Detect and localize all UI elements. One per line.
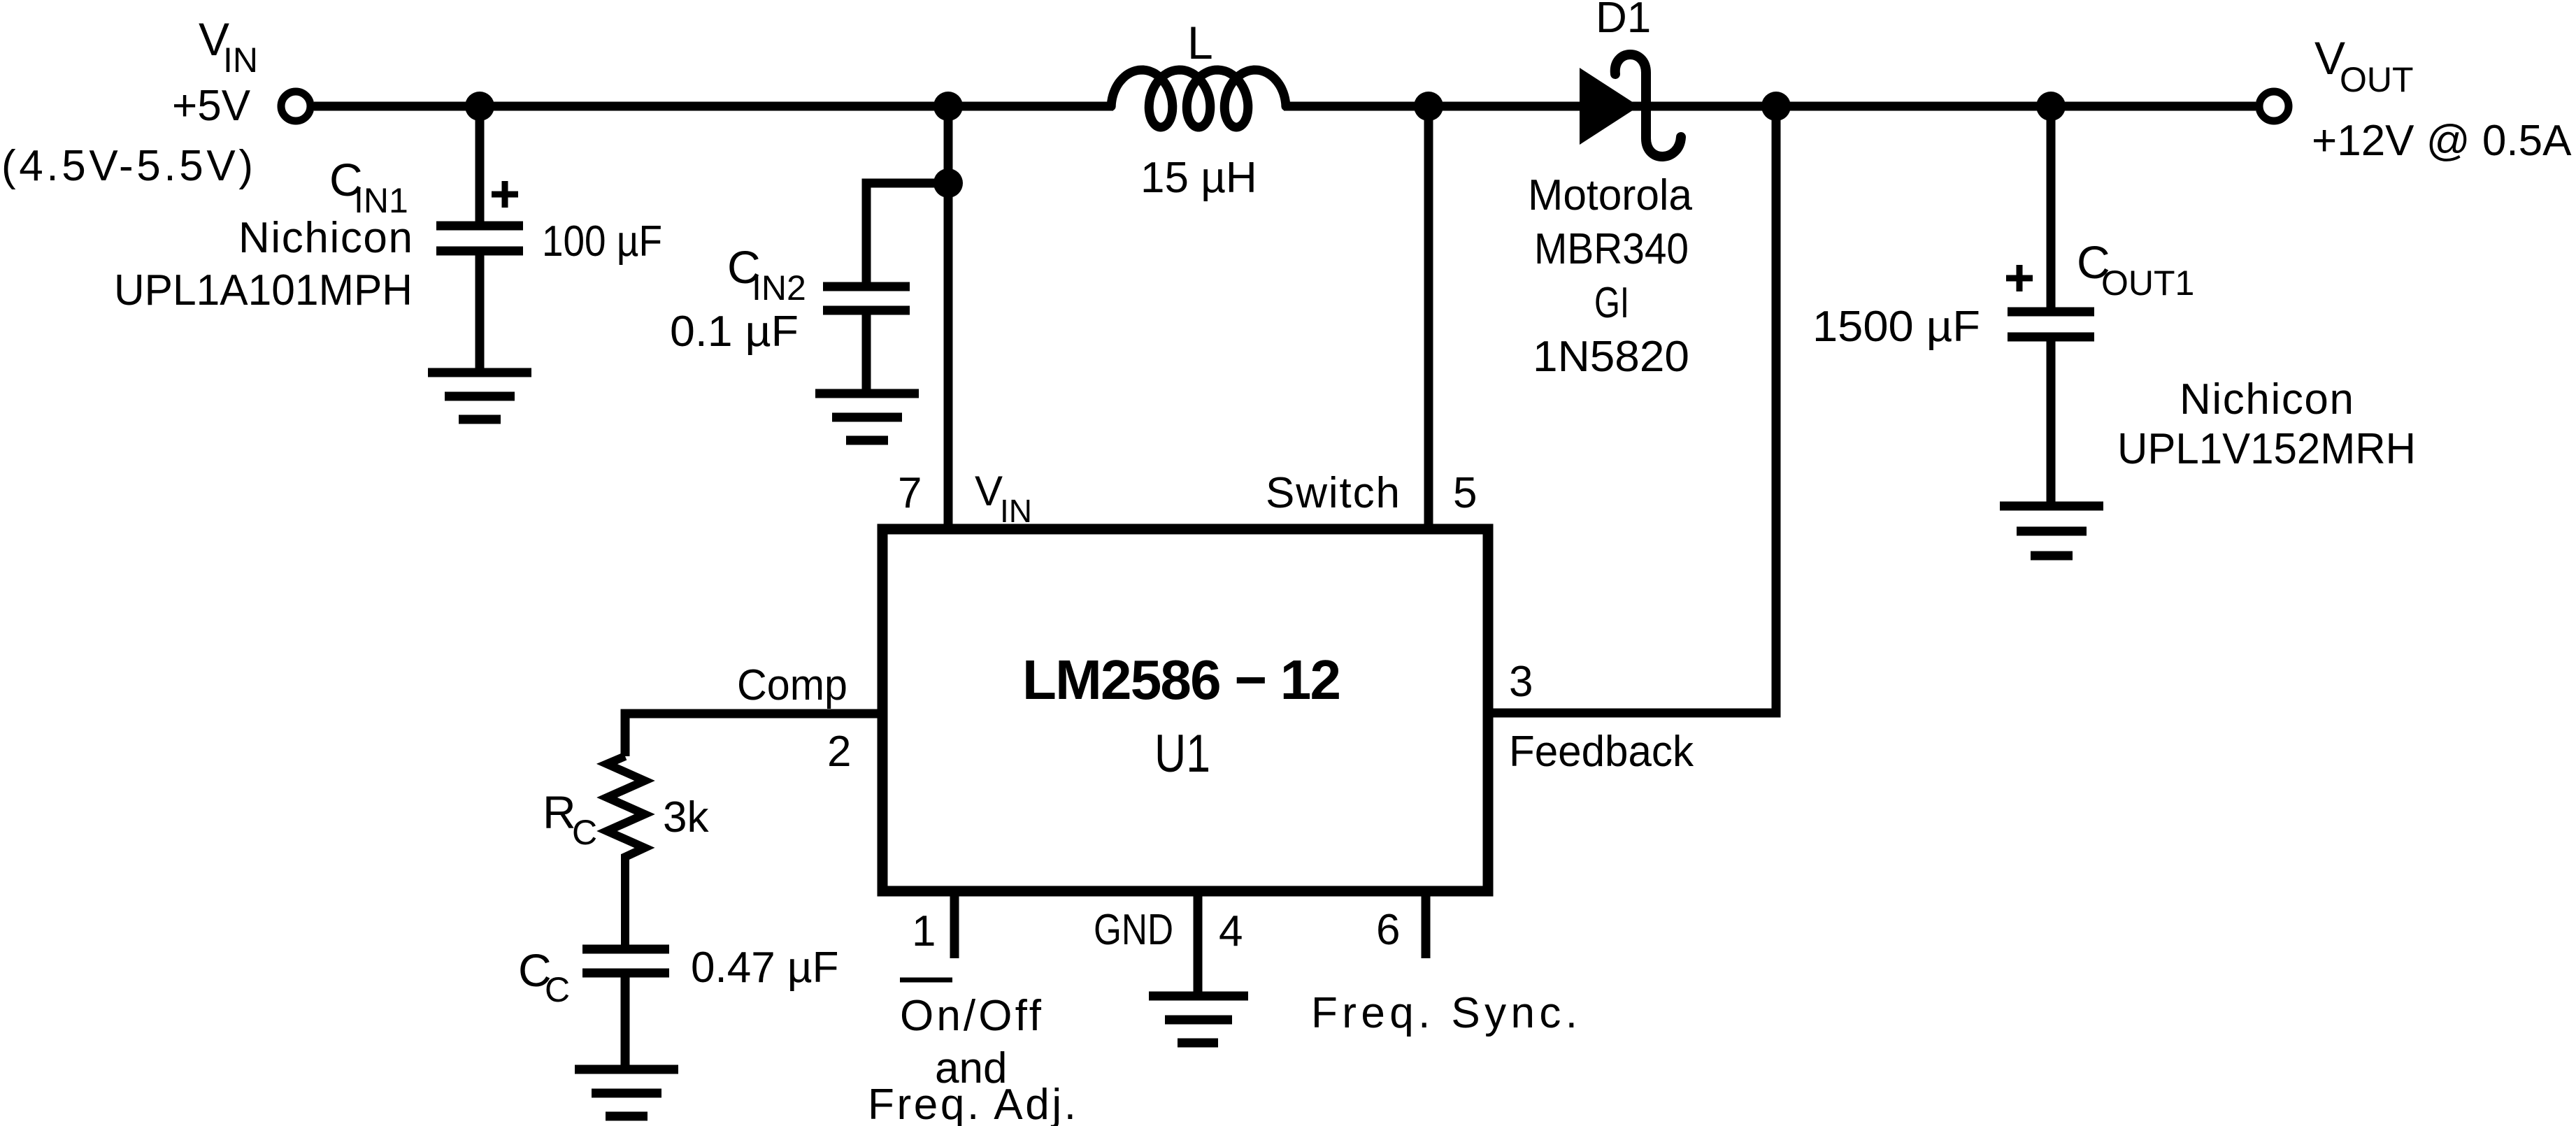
ground (CIN1) [428, 373, 531, 419]
svg-text:GI: GI [1594, 279, 1629, 327]
svg-text:OUT1: OUT1 [2101, 264, 2194, 303]
svg-text:D1: D1 [1596, 0, 1651, 42]
svg-text:3: 3 [1509, 658, 1533, 706]
svg-text:0.1 µF: 0.1 µF [670, 308, 799, 356]
svg-text:OUT: OUT [2340, 60, 2414, 99]
svg-text:Motorola: Motorola [1528, 171, 1693, 219]
label CIN1 plus [492, 181, 518, 208]
label VIN [1, 13, 258, 190]
pin 4 / GND labels [1094, 906, 1243, 955]
ground (GND pin 4) [1149, 996, 1248, 1043]
node D: switch node junction [1414, 92, 1443, 121]
ground (COUT1) [2000, 506, 2103, 556]
svg-text:1N5820: 1N5820 [1533, 333, 1689, 381]
terminal VIN (input, open circle) [281, 92, 310, 121]
svg-text:Nichicon: Nichicon [2180, 375, 2354, 424]
svg-text:Nichicon: Nichicon [238, 214, 413, 262]
svg-text:UPL1V152MRH: UPL1V152MRH [2117, 425, 2416, 473]
wire comp (pin 2) [625, 714, 882, 756]
diode D1 [1580, 55, 1681, 157]
capacitor CIN1 [436, 226, 523, 368]
node F: COUT1 junction on rail [2036, 92, 2066, 121]
label COUT1 plus [2006, 265, 2033, 291]
capacitor CC [582, 949, 669, 1065]
svg-text:R: R [543, 786, 576, 838]
wire feedback [1491, 106, 1776, 713]
label CC [518, 944, 839, 1009]
capacitor COUT1 [2008, 312, 2094, 502]
IC U1 (LM2586-12 body) [882, 529, 1488, 891]
ground (CIN2) [815, 394, 919, 440]
node B: VIN pin-7 junction on rail [933, 92, 963, 121]
svg-text:7: 7 [898, 469, 922, 517]
pin 1 stub [950, 891, 959, 958]
label On/Off and Freq. Adj. [868, 992, 1076, 1126]
svg-text:6: 6 [1376, 906, 1400, 954]
svg-text:1500 µF: 1500 µF [1812, 303, 1980, 351]
svg-text:GND: GND [1094, 906, 1173, 954]
wire main rail [314, 102, 1113, 111]
capacitor CIN2 [823, 287, 910, 389]
label D1 part [1528, 171, 1693, 381]
resistor RC [607, 756, 645, 945]
pin 7 label [898, 468, 1032, 529]
svg-text:15 µH: 15 µH [1140, 154, 1257, 202]
node A: input/CIN1 junction [465, 92, 494, 121]
svg-text:1: 1 [912, 907, 936, 955]
svg-text:Feedback: Feedback [1509, 728, 1694, 776]
label CIN1 [114, 154, 662, 315]
svg-text:IN: IN [223, 41, 258, 80]
label COUT1 [1812, 236, 2416, 473]
svg-text:On/Off: On/Off [900, 992, 1042, 1040]
svg-text:Switch: Switch [1266, 469, 1400, 517]
svg-text:C: C [545, 970, 570, 1009]
wire COUT1 top lead [2047, 106, 2056, 308]
label On/Off overline [900, 978, 952, 983]
node E: feedback junction on rail [1761, 92, 1791, 121]
svg-text:L: L [1187, 17, 1213, 68]
node C: CIN2 tap junction [933, 168, 963, 198]
svg-text:100 µF: 100 µF [542, 217, 662, 266]
svg-text:4: 4 [1219, 907, 1243, 955]
svg-text:U1: U1 [1154, 724, 1210, 784]
label CIN2 [670, 241, 806, 356]
svg-text:V: V [975, 468, 1003, 514]
svg-text:MBR340: MBR340 [1534, 225, 1689, 273]
svg-text:+12V @ 0.5A: +12V @ 0.5A [2312, 117, 2572, 165]
wire pin5 vertical [1424, 106, 1433, 526]
svg-text:+5V: +5V [172, 82, 251, 130]
svg-text:Freq. Adj.: Freq. Adj. [868, 1081, 1076, 1126]
wire pin7 vertical [944, 106, 953, 526]
pin 3 label [1509, 658, 1694, 776]
label RC [543, 786, 709, 852]
svg-text:3k: 3k [663, 793, 709, 842]
inductor L [1111, 70, 1286, 127]
svg-text:UPL1A101MPH: UPL1A101MPH [114, 266, 413, 315]
svg-text:2: 2 [827, 728, 851, 776]
terminal VOUT (output, open circle) [2259, 92, 2289, 121]
label L [1140, 17, 1257, 202]
pin 2 label [737, 661, 851, 776]
svg-text:IN: IN [1000, 493, 1032, 529]
label VOUT [2312, 32, 2572, 165]
pin 5 label [1266, 469, 1477, 517]
svg-text:C: C [572, 813, 597, 852]
svg-text:0.47 µF: 0.47 µF [691, 944, 839, 992]
svg-text:(4.5V-5.5V): (4.5V-5.5V) [1, 142, 253, 190]
wire CIN1 top lead [475, 106, 485, 222]
wire CIN2 tap [866, 183, 948, 282]
svg-text:LM2586 − 12: LM2586 − 12 [1022, 649, 1341, 711]
pin 4 stub [1194, 891, 1203, 996]
ground (CC) [575, 1069, 678, 1116]
svg-text:Comp: Comp [737, 661, 847, 709]
svg-text:IN2: IN2 [752, 268, 806, 308]
pin 6 stub [1422, 891, 1431, 958]
svg-text:5: 5 [1453, 469, 1477, 517]
